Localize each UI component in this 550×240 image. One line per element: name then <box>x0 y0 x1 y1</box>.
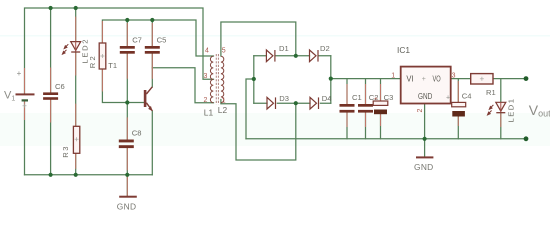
diode D1 <box>266 50 275 62</box>
resistor R2 <box>99 43 106 69</box>
transistor T1 <box>144 87 153 111</box>
svg-text:C3: C3 <box>384 93 394 102</box>
junction C7 feedback rail <box>125 18 129 22</box>
wire battery negative to bottom rail <box>24 102 26 175</box>
capacitor C4 polarized <box>446 94 466 116</box>
svg-text:VI: VI <box>406 74 413 83</box>
wire bridge right side <box>330 56 332 103</box>
svg-text:C8: C8 <box>132 128 142 137</box>
wire IC pin 2 to rail <box>424 104 426 139</box>
wire C4 legs <box>457 79 459 139</box>
wire R1 to output terminal <box>493 78 526 80</box>
node bridge positive <box>329 77 333 81</box>
LED LED2 <box>62 42 80 55</box>
svg-text:2: 2 <box>417 109 424 113</box>
wire emitter to bottom rail <box>151 111 153 175</box>
junction base node <box>125 100 129 104</box>
svg-text:+: + <box>17 69 22 78</box>
wire bottom left rail <box>25 174 153 176</box>
junction IC1 ground <box>423 137 427 141</box>
capacitor C2 <box>358 104 373 113</box>
wire ground stub left <box>126 175 128 196</box>
wire collector node to transformer pin 2 <box>152 68 213 103</box>
transformer pin numbers <box>204 47 226 104</box>
wire R2 bottom to transistor base <box>102 69 143 103</box>
resistor R1 <box>471 74 493 84</box>
resistor R3 <box>73 126 79 153</box>
capacitor C1 <box>340 104 355 113</box>
svg-text:C4: C4 <box>462 92 472 101</box>
component pin stubs (symbol-colored leads) <box>25 17 501 196</box>
wire C7 top leg <box>126 20 128 46</box>
wire bottom rail right <box>246 138 526 140</box>
capacitor C8 pin stubs <box>126 117 128 170</box>
capacitor C5 pin stubs <box>151 23 153 79</box>
svg-text:T1: T1 <box>108 61 117 70</box>
node bridge AC top <box>294 54 298 58</box>
svg-text:R2: R2 <box>88 54 97 68</box>
wire C5 top leg <box>151 20 153 46</box>
svg-text:IC1: IC1 <box>397 45 410 55</box>
battery V1 pin stubs <box>24 68 26 120</box>
wire bridge negative jog down <box>246 79 254 139</box>
LED LED1 cathode pin stub <box>500 114 502 127</box>
svg-text:2: 2 <box>204 97 208 104</box>
svg-text:C6: C6 <box>55 82 65 91</box>
wire bridge positive to IC input <box>331 78 401 80</box>
svg-text:3: 3 <box>204 73 208 80</box>
svg-text:C5: C5 <box>157 35 167 44</box>
svg-text:GND: GND <box>414 162 434 172</box>
voltage regulator IC1 <box>401 67 451 104</box>
transformer core <box>216 54 218 105</box>
ground symbol left <box>117 196 137 212</box>
resistor R3 pin stubs <box>75 104 77 169</box>
transformer L1 primary winding <box>210 56 213 102</box>
svg-text:3: 3 <box>452 72 456 79</box>
ground symbol right <box>414 156 434 171</box>
svg-text:1: 1 <box>391 72 395 79</box>
wire C8 bottom branch <box>126 148 128 175</box>
terminal Vout plus <box>524 76 529 81</box>
LED LED1 <box>488 102 506 115</box>
svg-text:+: + <box>446 94 450 101</box>
svg-text:GND: GND <box>117 201 137 211</box>
diode D3 <box>267 97 276 109</box>
junction LED2 top rail <box>74 6 78 10</box>
svg-text:C1: C1 <box>352 93 362 102</box>
junction R3 bottom rail <box>74 173 78 177</box>
capacitor C6 <box>43 92 58 99</box>
svg-text:C7: C7 <box>132 35 142 44</box>
wire C6 top branch <box>50 8 52 92</box>
wire C1 legs <box>346 79 348 139</box>
resistor R2 pin stubs <box>101 21 103 92</box>
junction C6 bottom rail <box>49 173 53 177</box>
terminal Vout minus <box>524 136 529 141</box>
svg-text:GND: GND <box>418 92 432 101</box>
wire C3 legs <box>380 79 382 139</box>
wire C7 bottom to C8 top <box>126 54 128 140</box>
svg-text:D3: D3 <box>279 94 289 103</box>
capacitor C1 pin stubs <box>346 84 348 127</box>
svg-text:1: 1 <box>222 97 226 104</box>
svg-text:+: + <box>422 76 426 83</box>
wire C2 legs <box>365 79 367 139</box>
diode D2 <box>310 50 319 62</box>
transformer L2 secondary winding <box>221 56 224 102</box>
svg-text:LED1: LED1 <box>507 98 516 123</box>
wire feedback loop R2 top to transformer pin 4 <box>102 20 213 56</box>
capacitor C5 <box>145 46 160 54</box>
wire IC output to R1 <box>451 78 471 80</box>
svg-text:D1: D1 <box>279 44 289 53</box>
capacitor C4 pin stubs <box>457 81 459 126</box>
wire ground stub right <box>424 139 426 157</box>
capacitor C3 polarized <box>373 96 388 115</box>
junction C6 top rail <box>49 6 53 10</box>
capacitor C2 pin stubs <box>365 84 367 127</box>
wire C5 bottom to collector node <box>151 54 153 87</box>
capacitor C6 pin stubs <box>50 68 52 123</box>
wire battery positive to top rail to transformer pin 3 <box>25 8 214 93</box>
ground symbol left pin stub <box>126 176 128 196</box>
capacitor C8 <box>119 140 134 149</box>
diode D4 <box>310 97 319 109</box>
svg-text:R1: R1 <box>486 88 496 97</box>
battery V1 <box>16 69 35 108</box>
svg-text:VO: VO <box>433 74 441 83</box>
svg-text:+: + <box>374 96 378 103</box>
svg-text:L1: L1 <box>204 108 214 118</box>
svg-text:5: 5 <box>222 47 226 54</box>
wire transformer pin 5 to bridge AC top <box>221 22 296 56</box>
wire C6 bottom branch <box>50 100 52 175</box>
faint background tint band <box>0 113 550 146</box>
svg-text:R3: R3 <box>61 145 70 158</box>
capacitor C7 <box>120 46 135 54</box>
junction C8 ground rail <box>125 173 129 177</box>
wire LED1 legs <box>500 79 502 139</box>
capacitor C3 pin stubs <box>380 84 382 126</box>
wire bridge left side <box>253 56 255 103</box>
capacitor C7 pin stubs <box>126 23 128 79</box>
LED LED2 pin stubs <box>75 17 77 76</box>
wire LED2 top branch <box>75 8 77 42</box>
svg-text:D2: D2 <box>320 44 330 53</box>
wire bridge top row segments <box>254 55 331 57</box>
svg-text:D4: D4 <box>322 94 332 103</box>
wire transformer pin 1 detour to bridge AC bottom <box>221 100 296 161</box>
node bridge negative <box>252 77 256 81</box>
wire LED2 to R3 <box>75 53 77 127</box>
svg-text:L2: L2 <box>218 105 228 115</box>
node bridge AC bottom <box>294 101 298 105</box>
wire bridge bottom row segments <box>254 102 331 104</box>
wire R3 bottom branch <box>75 153 77 175</box>
junction C5 feedback rail <box>150 18 154 22</box>
svg-text:4: 4 <box>205 47 209 54</box>
